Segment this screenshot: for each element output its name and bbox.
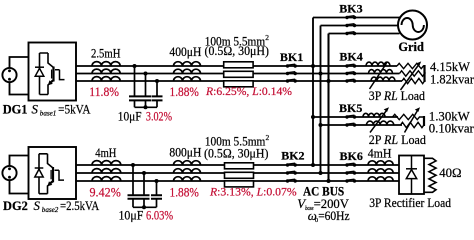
- grid sine wave: [402, 18, 424, 32]
- bus riser 3: [327, 34, 329, 182]
- load 2P RL coils: [363, 113, 394, 125]
- line section 100m boxes DG2: [225, 163, 254, 187]
- svg-text:base1: base1: [40, 110, 57, 118]
- svg-text:10μF: 10μF: [118, 109, 142, 123]
- phase line A DG2 (y=165.2): [76, 164, 400, 166]
- node dots capacitor taps DG2: [131, 163, 135, 167]
- wire DG2 source bottom: [10, 180, 29, 194]
- inductor 4mH coils DG2: [92, 161, 121, 181]
- inverter box DG2: [29, 147, 77, 199]
- inductor 800uH coils DG2: [174, 161, 201, 181]
- svg-text:2P RL Load: 2P RL Load: [369, 133, 427, 147]
- DC source terminal dots DG1: [8, 69, 11, 72]
- BK5 line B (y=125): [321, 124, 403, 126]
- node dots risers x DG2 phases: [311, 163, 315, 167]
- svg-text:R:3.13%, L:0.07%: R:3.13%, L:0.07%: [209, 184, 297, 198]
- svg-text:1.88%: 1.88%: [170, 185, 200, 199]
- BK5 line A (y=117): [313, 116, 398, 118]
- resistor 40ohm: [424, 158, 436, 192]
- svg-text:=2.5kVA: =2.5kVA: [60, 199, 100, 213]
- svg-text:(0.5Ω, 30μH): (0.5Ω, 30μH): [204, 146, 269, 160]
- wire DG1 source bottom: [10, 82, 29, 95]
- breaker BK1: [286, 64, 297, 83]
- BK3 line B: [321, 25, 399, 27]
- svg-text:BK3: BK3: [339, 1, 362, 15]
- svg-text:2: 2: [266, 133, 270, 142]
- svg-text:S: S: [32, 102, 39, 116]
- svg-text:9.42%: 9.42%: [90, 185, 122, 199]
- svg-text:S: S: [34, 199, 41, 213]
- arrow through 3P coils: [370, 62, 388, 89]
- arrow through 2P coils: [370, 107, 389, 132]
- wire DG1 source top: [10, 57, 29, 69]
- load 2P RL right bar: [423, 116, 425, 126]
- breaker BK2: [286, 163, 297, 183]
- diode D-DG2: [35, 168, 44, 177]
- load 3P RL resistors: [397, 63, 425, 83]
- node dots capacitor taps DG1: [133, 64, 137, 68]
- svg-text:BK6: BK6: [340, 149, 363, 163]
- arrow through 3P resistors: [401, 61, 422, 90]
- inverter symbol DG1: [40, 53, 65, 95]
- inductor 4mH coils BK6: [368, 161, 393, 181]
- phase line C DG1 (y=81): [76, 80, 402, 82]
- inductor 2.5mH coils: [92, 62, 120, 81]
- svg-text:DG2: DG2: [3, 199, 28, 213]
- bus riser 2: [320, 26, 322, 174]
- bus riser 1: [312, 18, 314, 166]
- svg-text:BK4: BK4: [339, 49, 362, 63]
- inverter box DG1: [29, 43, 77, 101]
- node dots risers x BK5 lines: [311, 115, 315, 119]
- svg-text:3.02%: 3.02%: [146, 109, 172, 123]
- svg-text:R:6.25%, L:0.14%: R:6.25%, L:0.14%: [205, 84, 292, 98]
- svg-text:2.5mH: 2.5mH: [91, 47, 121, 61]
- load 3P RL right bar: [423, 65, 425, 82]
- capacitor bank C1 (10uF): [129, 66, 163, 109]
- svg-text:(0.5Ω, 30μH): (0.5Ω, 30μH): [205, 44, 270, 58]
- diode D-DG1: [35, 67, 44, 76]
- svg-text:400μH: 400μH: [169, 45, 201, 59]
- svg-text:DG1: DG1: [3, 102, 28, 116]
- arrow through 2P resistors: [405, 107, 421, 132]
- svg-text:BK5: BK5: [339, 101, 362, 115]
- phase line A DG1 (y=66): [76, 65, 397, 67]
- wire DG2 source top: [10, 156, 29, 167]
- svg-text:11.8%: 11.8%: [89, 85, 119, 99]
- breaker BK5: [345, 115, 356, 127]
- load 3P RL coils: [366, 62, 395, 81]
- BK3 line A: [313, 17, 400, 19]
- svg-text:BK1: BK1: [280, 50, 303, 64]
- inductor 400uH coils: [174, 62, 201, 81]
- line section 100m boxes DG1: [224, 62, 253, 87]
- svg-text:0.10kvar: 0.10kvar: [429, 121, 474, 135]
- phase line B DG2 (y=172.7): [76, 172, 400, 174]
- breaker BK4: [345, 64, 356, 83]
- svg-text:Grid: Grid: [398, 40, 424, 54]
- svg-text:3P Rectifier Load: 3P Rectifier Load: [369, 196, 451, 210]
- svg-text:BK2: BK2: [281, 148, 304, 162]
- svg-text:3P RL Load: 3P RL Load: [369, 89, 426, 103]
- svg-text:800μH: 800μH: [169, 145, 201, 159]
- inverter symbol DG2: [39, 154, 64, 194]
- rectifier diode: [406, 156, 417, 195]
- rectifier box: [399, 156, 424, 195]
- svg-text:40Ω: 40Ω: [439, 166, 461, 180]
- svg-text:2: 2: [265, 33, 269, 42]
- svg-text:1.82kvar: 1.82kvar: [430, 72, 474, 86]
- node dots risers x DG1 phases: [311, 64, 315, 68]
- capacitor bank C2 (10uF): [128, 165, 163, 209]
- svg-text:1.88%: 1.88%: [170, 85, 200, 99]
- BK3 line C: [329, 33, 400, 35]
- svg-text:4mH: 4mH: [368, 147, 392, 161]
- svg-text:=60Hz: =60Hz: [318, 209, 350, 223]
- load 2P RL resistors: [393, 114, 425, 127]
- phase line C DG2 (y=180.2): [76, 180, 400, 182]
- breaker BK6: [345, 163, 356, 183]
- svg-text:6.03%: 6.03%: [146, 209, 173, 223]
- DC source circle DG1: [2, 68, 16, 82]
- DC source terminal dots DG2: [8, 167, 11, 170]
- svg-text:4mH: 4mH: [95, 146, 116, 160]
- svg-text:10μF: 10μF: [119, 209, 144, 223]
- svg-text:=5kVA: =5kVA: [58, 102, 91, 116]
- DC source circle DG2: [2, 166, 16, 180]
- phase line B DG1 (y=73.5): [76, 73, 400, 75]
- grid circle: [398, 11, 427, 40]
- breaker BK3: [345, 16, 356, 36]
- svg-text:base2: base2: [42, 206, 59, 214]
